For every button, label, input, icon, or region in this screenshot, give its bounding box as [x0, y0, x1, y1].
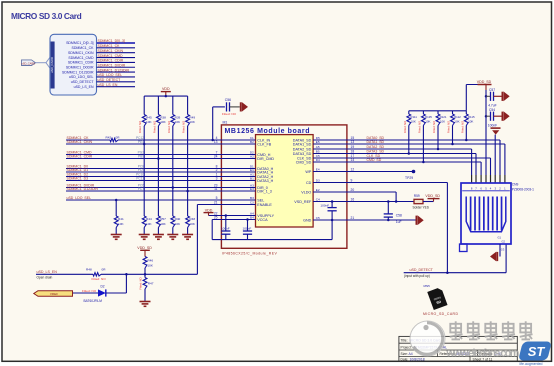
- svg-text:MICRO SD 3.0 Card: MICRO SD 3.0 Card: [11, 11, 82, 21]
- svg-text:VCCA: VCCA: [257, 218, 268, 222]
- svg-text:SDMMC1_CDIR: SDMMC1_CDIR: [67, 155, 93, 159]
- svg-text:uSD_CARD: uSD_CARD: [50, 56, 54, 73]
- svg-text:10K: 10K: [425, 120, 430, 124]
- svg-text:Fitted: NO: Fitted: NO: [138, 121, 142, 133]
- svg-text:DIR_CMD: DIR_CMD: [257, 157, 274, 161]
- svg-text:C54: C54: [489, 108, 495, 112]
- svg-text:VDD_SD: VDD_SD: [137, 246, 152, 250]
- svg-text:Fitted: NO: Fitted: NO: [167, 121, 171, 133]
- svg-text:VDD: VDD: [162, 87, 170, 91]
- svg-text:E1: E1: [250, 168, 254, 172]
- svg-text:100nF: 100nF: [243, 227, 252, 231]
- svg-text:VDD: VDD: [205, 208, 213, 212]
- svg-text:WP: WP: [305, 170, 311, 174]
- svg-text:TP29: TP29: [405, 176, 413, 180]
- svg-text:10K: 10K: [118, 222, 124, 226]
- svg-text:uSD_LS_EN: uSD_LS_EN: [37, 270, 58, 274]
- svg-text:CMD_SD: CMD_SD: [367, 158, 382, 162]
- svg-text:10K: 10K: [147, 263, 153, 267]
- svg-text:10K: 10K: [411, 120, 416, 124]
- svg-text:Fitted: NO: Fitted: NO: [432, 121, 436, 133]
- svg-text:SDMMC1_CK: SDMMC1_CK: [72, 46, 95, 50]
- svg-text:SDMMC1_CKIN: SDMMC1_CKIN: [68, 51, 94, 55]
- svg-text:SDMMC1_D0DIR: SDMMC1_D0DIR: [98, 63, 126, 67]
- svg-text:10K: 10K: [160, 120, 166, 124]
- svg-text:uSD_DETECT: uSD_DETECT: [71, 80, 95, 84]
- svg-text:VDD_SD: VDD_SD: [477, 80, 492, 84]
- svg-text:VLDO: VLDO: [301, 190, 311, 194]
- svg-text:G2: G2: [502, 240, 506, 244]
- svg-text:uSD_LDO_SEL: uSD_LDO_SEL: [67, 196, 92, 200]
- svg-text:DATA1_H: DATA1_H: [257, 170, 273, 174]
- svg-text:SDMMC1_D123DIR: SDMMC1_D123DIR: [67, 187, 99, 191]
- svg-text:R112: R112: [454, 115, 461, 119]
- svg-text:10K: 10K: [175, 222, 181, 226]
- svg-text:DATA3_SD: DATA3_SD: [293, 152, 312, 156]
- svg-text:CLK_FB: CLK_FB: [257, 142, 271, 146]
- svg-text:SDMMC1_CMD: SDMMC1_CMD: [68, 56, 94, 60]
- svg-text:R41: R41: [118, 217, 124, 221]
- svg-text:10K: 10K: [454, 120, 459, 124]
- svg-text:C57: C57: [489, 88, 495, 92]
- svg-text:uSD_LDO_SEL: uSD_LDO_SEL: [69, 75, 94, 79]
- svg-text:R46: R46: [147, 259, 153, 263]
- svg-text:R48: R48: [189, 217, 195, 221]
- svg-text:ENABLE: ENABLE: [257, 203, 272, 207]
- svg-text:R42: R42: [106, 135, 112, 139]
- svg-text:PB9: PB9: [138, 155, 144, 159]
- svg-text:R40: R40: [175, 217, 181, 221]
- svg-text:Open drain: Open drain: [37, 276, 53, 280]
- svg-text:13: 13: [214, 140, 218, 144]
- svg-text:uSD_LS_EN: uSD_LS_EN: [74, 85, 94, 89]
- svg-text:SDMMC1_CDIR: SDMMC1_CDIR: [68, 61, 94, 65]
- svg-text:Fitted: NO: Fitted: NO: [447, 121, 451, 133]
- svg-text:VSD_REF: VSD_REF: [294, 200, 312, 204]
- svg-text:PC9: PC9: [138, 168, 144, 172]
- svg-text:B3: B3: [250, 196, 254, 200]
- svg-text:Date:: Date:: [401, 357, 409, 361]
- svg-text:VREF: VREF: [50, 292, 58, 296]
- svg-text:uSD_LS_EN: uSD_LS_EN: [98, 83, 118, 87]
- svg-text:PZ8008-2003-1: PZ8008-2003-1: [512, 188, 534, 192]
- svg-text:MICRO_SD_CARD: MICRO_SD_CARD: [423, 312, 458, 316]
- svg-text:MN5: MN5: [424, 284, 431, 288]
- svg-text:Fitted: NO: Fitted: NO: [182, 121, 186, 133]
- svg-text:Fitted: NO: Fitted: NO: [403, 121, 407, 133]
- svg-text:SDMMC1_D123DIR: SDMMC1_D123DIR: [98, 68, 130, 72]
- svg-text:A4: A4: [409, 352, 413, 356]
- svg-text:www.elecfans.com: www.elecfans.com: [445, 348, 519, 360]
- svg-text:Fitted: NO: Fitted: NO: [82, 289, 97, 293]
- svg-text:D2: D2: [101, 284, 105, 288]
- svg-text:B1: B1: [250, 177, 254, 181]
- svg-text:SDMMC1_D1: SDMMC1_D1: [67, 168, 89, 172]
- svg-text:R38: R38: [160, 115, 166, 119]
- svg-text:Size:: Size:: [401, 352, 408, 356]
- svg-text:uSD_LDO_SEL: uSD_LDO_SEL: [98, 73, 123, 77]
- svg-text:CMD_SD: CMD_SD: [296, 160, 312, 164]
- svg-text:Solder YES: Solder YES: [413, 206, 429, 210]
- svg-text:IP4856CX25/C_Module_REV: IP4856CX25/C_Module_REV: [222, 252, 278, 256]
- svg-text:DATA1_SD: DATA1_SD: [367, 140, 385, 144]
- svg-text:DATA2_SD: DATA2_SD: [367, 145, 385, 149]
- svg-text:SDMMC1_D[0..3]: SDMMC1_D[0..3]: [98, 39, 125, 43]
- svg-text:SDMMC1_CKIN: SDMMC1_CKIN: [98, 49, 124, 53]
- svg-text:C56: C56: [225, 98, 231, 102]
- svg-text:BAT60JFILM: BAT60JFILM: [84, 299, 103, 303]
- svg-text:VDD_SD: VDD_SD: [425, 194, 440, 198]
- svg-text:R57: R57: [160, 217, 166, 221]
- svg-text:B4: B4: [250, 216, 254, 220]
- svg-text:4.7uF: 4.7uF: [488, 104, 496, 108]
- svg-text:uSD_DETECT: uSD_DETECT: [410, 268, 434, 272]
- svg-text:SDMMC1_D[0..3]: SDMMC1_D[0..3]: [66, 41, 93, 45]
- svg-text:PC7: PC7: [138, 187, 144, 191]
- svg-text:10K: 10K: [440, 120, 445, 124]
- svg-text:Fitted: NO: Fitted: NO: [417, 121, 421, 133]
- svg-text:100nF: 100nF: [320, 203, 329, 207]
- svg-text:life.augmented: life.augmented: [520, 362, 543, 366]
- svg-text:SDMMC1_CKIN: SDMMC1_CKIN: [67, 140, 93, 144]
- svg-text:PC11: PC11: [136, 177, 144, 181]
- svg-text:Fitted: NO: Fitted: NO: [152, 121, 156, 133]
- svg-text:R111: R111: [410, 115, 417, 119]
- svg-text:2: 2: [216, 168, 218, 172]
- svg-text:SEL: SEL: [257, 198, 264, 202]
- svg-text:3: 3: [216, 177, 218, 181]
- svg-text:G1: G1: [498, 236, 502, 240]
- svg-text:uSD_DETECT: uSD_DETECT: [98, 78, 122, 82]
- svg-text:R47: R47: [148, 281, 154, 285]
- svg-text:SDMMC1_CMD: SDMMC1_CMD: [98, 54, 124, 58]
- svg-text:R48: R48: [86, 267, 92, 271]
- svg-text:10K: 10K: [160, 222, 166, 226]
- svg-text:M1: M1: [223, 121, 228, 125]
- svg-text:R121: R121: [440, 115, 447, 119]
- svg-text:ST: ST: [528, 344, 546, 359]
- svg-text:(input with pull up): (input with pull up): [404, 274, 430, 278]
- svg-text:Project:: Project:: [401, 345, 412, 349]
- svg-text:R49: R49: [189, 115, 195, 119]
- svg-text:10K: 10K: [189, 120, 195, 124]
- svg-text:SDMMC1_D123DIR: SDMMC1_D123DIR: [62, 70, 94, 74]
- svg-text:Fitted: NO: Fitted: NO: [92, 277, 107, 281]
- svg-text:SDMMC1_CDIR: SDMMC1_CDIR: [98, 59, 124, 63]
- svg-text:25: 25: [214, 216, 218, 220]
- svg-text:GND: GND: [303, 218, 312, 222]
- svg-text:C58: C58: [396, 214, 402, 218]
- svg-text:21: 21: [214, 201, 218, 205]
- svg-text:CN9: CN9: [512, 182, 519, 186]
- svg-text:Title:: Title:: [401, 339, 408, 343]
- svg-text:C3: C3: [250, 201, 254, 205]
- svg-text:10K: 10K: [146, 222, 152, 226]
- svg-text:G3: G3: [501, 248, 505, 252]
- svg-text:100nF: 100nF: [221, 227, 230, 231]
- svg-text:100nF: 100nF: [488, 124, 497, 128]
- svg-text:R44: R44: [146, 217, 152, 221]
- svg-text:10/8/2018: 10/8/2018: [410, 357, 425, 361]
- svg-text:DATA3_H: DATA3_H: [257, 179, 273, 183]
- svg-text:DATA2_SD: DATA2_SD: [293, 147, 312, 151]
- svg-text:SDMMC1_D0DIR: SDMMC1_D0DIR: [66, 65, 94, 69]
- svg-text:R115: R115: [468, 115, 475, 119]
- svg-text:R59: R59: [414, 194, 420, 198]
- svg-text:DATA1_SD: DATA1_SD: [293, 142, 312, 146]
- svg-text:10K: 10K: [189, 222, 195, 226]
- svg-text:B2: B2: [250, 140, 254, 144]
- svg-text:10K: 10K: [468, 120, 473, 124]
- svg-text:DIR_1_3: DIR_1_3: [257, 189, 272, 193]
- svg-text:A2: A2: [250, 155, 254, 159]
- svg-text:24: 24: [214, 155, 218, 159]
- svg-text:SDMMC1_D3: SDMMC1_D3: [67, 177, 89, 181]
- svg-text:5: 5: [216, 196, 218, 200]
- svg-text:MB1256 Module board: MB1256 Module board: [225, 128, 310, 135]
- svg-text:uSD_CARD: uSD_CARD: [21, 61, 35, 65]
- svg-text:E3: E3: [250, 187, 254, 191]
- svg-text:11: 11: [214, 187, 218, 191]
- svg-text:Fitted: NO: Fitted: NO: [222, 112, 237, 116]
- svg-text:R45: R45: [146, 115, 152, 119]
- svg-text:DATA3_SD: DATA3_SD: [367, 150, 385, 154]
- svg-text:R135: R135: [425, 115, 432, 119]
- svg-text:10K: 10K: [146, 120, 152, 124]
- svg-text:SDMMC1_CK: SDMMC1_CK: [98, 44, 121, 48]
- svg-text:Fitted: NO: Fitted: NO: [460, 121, 464, 133]
- svg-text:10K: 10K: [175, 120, 181, 124]
- svg-text:R39: R39: [175, 115, 181, 119]
- svg-text:CD: CD: [306, 181, 312, 185]
- svg-text:Fitted: NO: Fitted: NO: [139, 277, 143, 289]
